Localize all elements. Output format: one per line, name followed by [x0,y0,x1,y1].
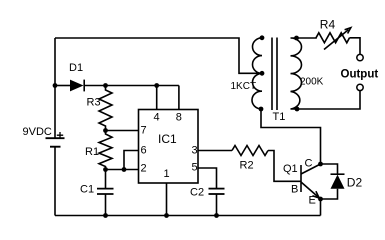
wire primary bottom to Q1 collector [261,109,321,164]
wire pin 1 to ground rail [166,183,168,216]
svg-text:1: 1 [164,168,170,180]
resistor R1 [99,131,112,170]
output terminal bottom [357,84,363,90]
capacitor C1 [97,189,114,194]
svg-text:2: 2 [141,163,147,175]
label E (emitter) [309,195,316,207]
node C2 ground junction [214,213,219,218]
svg-text:IC1: IC1 [158,132,177,146]
wire D1 anode lead [55,85,70,87]
svg-text:Q1: Q1 [283,163,298,175]
node battery rail / D1 junction [53,83,58,88]
capacitor C2 [209,189,225,194]
wire bottom ground rail [55,215,321,217]
label R3 [87,97,101,109]
svg-text:3: 3 [192,145,198,157]
pin 2 label [141,163,147,175]
svg-text:D2: D2 [347,176,363,190]
label T1 [273,111,286,123]
pin 3 label [192,145,198,157]
wire pin 3 to R2 [198,150,232,152]
label 1KCT [231,81,257,92]
svg-text:T1: T1 [273,111,286,123]
wire Q1 emitter to ground rail [320,199,322,216]
label D2 [347,176,363,190]
node pin4/8 bracket junction [154,83,159,88]
node R3 top junction [103,83,108,88]
pin 5 label [192,162,198,174]
svg-text:C1: C1 [80,184,94,196]
wire secondary top to R4 [297,37,317,39]
label R1 [85,146,99,158]
svg-text:5: 5 [192,162,198,174]
wire pin 2 stub [106,169,139,171]
svg-text:4: 4 [154,112,160,124]
label Output [341,69,379,81]
node R1 bottom junction [103,167,108,172]
label R4 [320,18,336,32]
node primary top terminal [260,35,265,40]
wire pin 6 stub [124,151,139,170]
pin 7 label [141,125,147,137]
svg-text:B: B [291,184,298,196]
label C1 [80,184,94,196]
wire D2 anode to emitter [321,189,338,199]
label 200K [300,76,324,87]
transistor Q1 [301,164,321,199]
svg-text:6: 6 [141,145,147,157]
wire C1 to ground rail [105,194,107,216]
node C1 ground junction [103,213,108,218]
R4 wiper arrow [324,28,351,50]
pin 1 label [164,168,170,180]
node primary bottom terminal [259,107,264,112]
svg-text:R2: R2 [240,160,254,172]
op-amp/timer IC1 box [139,110,199,184]
diode D1 [70,80,84,92]
diode D2 [331,174,345,189]
pin 6 label [141,145,147,157]
svg-text:C: C [305,158,313,170]
battery BT1 9VDC [46,138,65,147]
wire collector to D2 cathode [321,164,338,174]
node primary center tap [260,71,265,76]
label R2 [240,160,254,172]
svg-text:R1: R1 [85,146,99,158]
label D1 [69,62,83,74]
node secondary bottom terminal [295,107,300,112]
node R3/R1/pin7 junction [103,128,108,133]
svg-text:E: E [309,195,316,207]
wire pin 5 to C2 [198,168,217,188]
wire left rail lower (battery - to bottom rail) [54,148,56,216]
svg-text:C2: C2 [190,187,204,199]
resistor R3 [99,86,112,131]
svg-text:R3: R3 [87,97,101,109]
svg-text:200K: 200K [300,76,324,87]
label IC1 [158,132,177,146]
wire pin 7 stub [106,130,139,132]
wire R2 to Q1 base [268,151,301,182]
node pin1 ground junction [164,213,169,218]
node Q1 emitter junction [318,197,323,202]
transformer T1 core [272,38,277,111]
resistor R4 (variable) [316,33,350,43]
node Q1 collector junction [318,162,323,167]
svg-text:Output: Output [341,69,379,81]
label B (base) [291,184,298,196]
label Q1 [283,163,298,175]
pin 4 label [154,112,160,124]
transformer T1 secondary winding [291,38,302,109]
svg-text:9VDC: 9VDC [23,126,52,138]
svg-text:7: 7 [141,125,147,137]
svg-text:D1: D1 [69,62,83,74]
output terminal top [357,54,363,60]
wire R1 to C1 [105,170,107,189]
battery plus sign [57,132,63,138]
wire top rail from battery + to transformer center tap [55,38,261,73]
wire C2 to ground rail [216,194,218,216]
node pin6 riser junction [122,167,127,172]
label 9VDC [23,126,52,138]
wire D1 cathode to IC1 pins 4/8 bracket [84,86,179,110]
node secondary top terminal [294,36,299,41]
resistor R2 [232,146,268,156]
label C (collector) [305,158,313,170]
wire left rail upper (battery + to top rail and D1 tap) [54,38,56,138]
transformer T1 primary winding [252,38,262,109]
svg-text:1KCT: 1KCT [231,81,257,92]
wire output bottom to secondary bottom [297,91,360,109]
wire R4 to output terminal top [350,38,361,55]
label C2 [190,187,204,199]
svg-text:R4: R4 [320,18,336,32]
pin 8 label [176,112,182,124]
svg-text:8: 8 [176,112,182,124]
